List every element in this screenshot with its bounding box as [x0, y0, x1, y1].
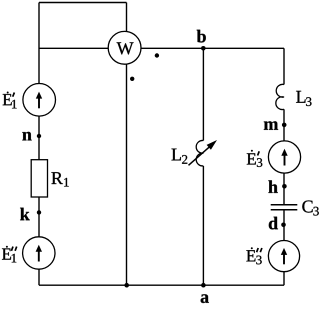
label R1: [51, 172, 68, 186]
wattmeter W1 circle: [108, 31, 141, 64]
source E1'' circle: [23, 237, 55, 269]
wattmeter polarity dot bottom: [130, 77, 134, 81]
wire left branch source to n to R1: [38, 116, 40, 160]
inductor L2 variable arrow: [189, 140, 218, 165]
wire left branch R1 to k to E1'': [38, 197, 40, 237]
label E1'': [2, 246, 17, 263]
source E3' circle: [268, 141, 300, 173]
source E3'' circle: [268, 241, 299, 272]
wire middle branch lower: [202, 166, 204, 285]
label L3: [296, 91, 311, 106]
label L2: [172, 149, 188, 164]
label b: [197, 30, 206, 43]
wattmeter W1 label: [117, 42, 134, 54]
source E3'' arrow: [281, 248, 287, 264]
node b: [201, 46, 206, 51]
junction dot wattmeter-bottom: [124, 283, 129, 288]
label n: [22, 132, 31, 140]
label E3'': [246, 247, 262, 264]
wire wattmeter bottom vertical: [126, 64, 128, 285]
node d: [281, 223, 286, 228]
wattmeter polarity dot right: [155, 53, 159, 57]
wire middle branch upper: [202, 48, 204, 140]
label C3: [302, 200, 318, 215]
node m: [282, 123, 287, 128]
label d: [269, 217, 278, 230]
source E3' arrow: [281, 149, 287, 166]
wire right branch C3 to d to E3'': [283, 210, 285, 240]
source E1' arrow: [36, 92, 42, 109]
resistor R1: [31, 160, 47, 197]
source E1'' arrow: [36, 245, 42, 262]
wire wattmeter voltage top vertical: [126, 3, 128, 33]
inductor L3 coil: [276, 84, 284, 109]
node a: [201, 283, 206, 288]
wire main horizontal left of W: [39, 47, 108, 49]
wire right branch bottom: [283, 272, 285, 286]
wire right branch L3 to m to E3': [283, 109, 285, 141]
wire top border horizontal: [39, 2, 127, 4]
node k: [37, 210, 41, 214]
node h: [282, 184, 287, 189]
label E3': [247, 150, 263, 167]
wire left branch bottom: [38, 269, 40, 285]
wire left branch upper vertical: [38, 3, 40, 84]
wire bottom horizontal: [39, 284, 284, 286]
capacitor C3: [271, 205, 298, 210]
source E1' circle: [23, 84, 56, 117]
wire main horizontal W to b to right corner: [141, 47, 284, 49]
wire right branch top: [283, 48, 285, 84]
label k: [20, 208, 30, 220]
node n: [37, 134, 41, 138]
label m: [264, 121, 278, 129]
label a: [201, 294, 209, 303]
label E1': [3, 92, 17, 109]
wire right branch E3' to h to C3: [283, 173, 285, 204]
label h: [268, 180, 277, 192]
inductor L2 coil: [196, 140, 203, 166]
